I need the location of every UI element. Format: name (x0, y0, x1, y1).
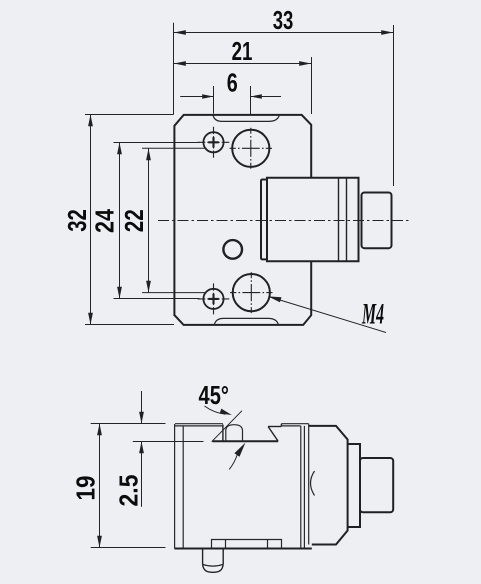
outline top edge left double (175, 423, 223, 425)
svg-text:32: 32 (64, 209, 92, 232)
bottom notch (214, 318, 278, 324)
cylinder silhouette arc (311, 471, 315, 496)
nut section (309, 426, 348, 545)
45 leader (205, 406, 226, 414)
plug (362, 193, 392, 249)
middle small circle (223, 240, 242, 259)
top notch (213, 115, 279, 121)
barrel flange (261, 180, 267, 260)
45 deg construction line (212, 411, 242, 442)
hole H2 (203, 289, 223, 309)
svg-text:19: 19 (72, 476, 100, 501)
body outline (174, 115, 311, 325)
svg-text:M4: M4 (361, 298, 384, 331)
notch left wall (222, 425, 224, 442)
hole H1 (203, 132, 223, 152)
bottom groove (212, 540, 282, 549)
dim 2.5 (141, 391, 143, 424)
dim 22 (148, 149, 150, 293)
verticals at body/nut junction (300, 426, 302, 549)
bottom edge (174, 548, 311, 550)
svg-text:22: 22 (121, 209, 149, 232)
circle C1 (232, 130, 269, 167)
notch right step (268, 427, 278, 442)
dim 6 (180, 96, 213, 98)
notch floor (213, 440, 279, 442)
center axis dash-dot (158, 220, 409, 222)
barrel ring lines (339, 178, 347, 262)
M4 leader (269, 297, 387, 333)
step rect (348, 444, 360, 527)
dim 33 (174, 32, 393, 34)
circle C2 (233, 274, 270, 311)
svg-text:21: 21 (232, 38, 253, 66)
dim 19 (99, 424, 101, 548)
svg-text:45°: 45° (199, 382, 229, 410)
plug side (360, 458, 393, 512)
svg-text:2.5: 2.5 (116, 475, 144, 507)
svg-text:24: 24 (92, 208, 120, 233)
pin (203, 548, 224, 564)
svg-text:6: 6 (227, 69, 238, 97)
dome (226, 425, 243, 441)
dim 24 (119, 143, 121, 299)
left edge double (174, 424, 176, 548)
bottom leader (229, 454, 237, 469)
top edge right double (281, 423, 308, 425)
svg-text:33: 33 (273, 7, 294, 35)
dim 32 (90, 115, 92, 325)
barrel (267, 178, 359, 262)
dim 21 (174, 63, 311, 65)
